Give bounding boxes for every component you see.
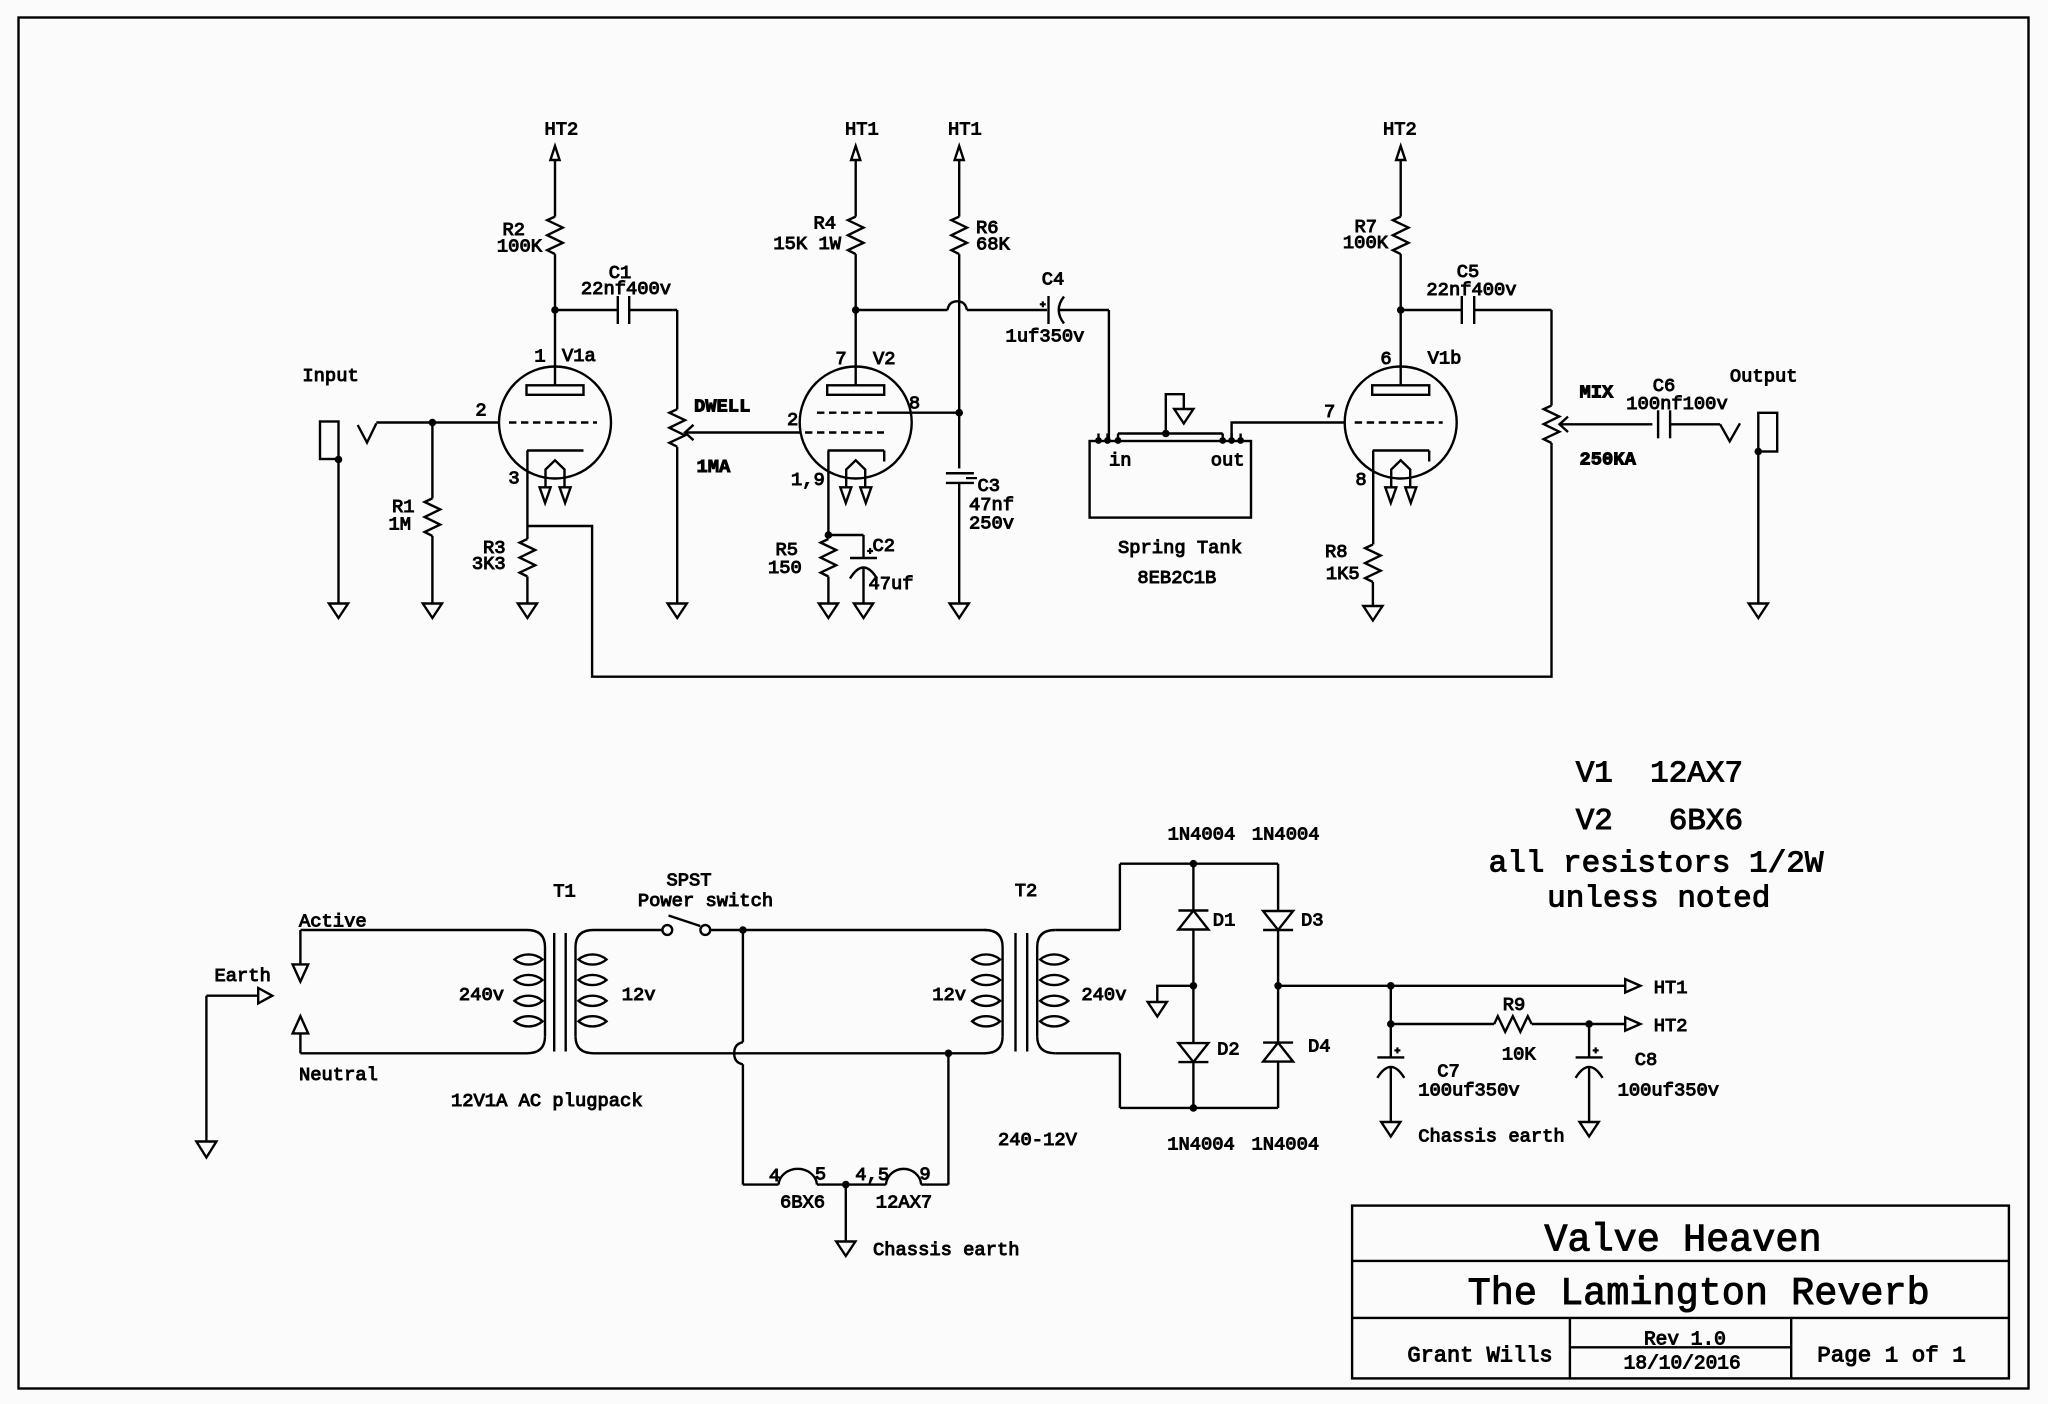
svg-text:V1b: V1b	[1428, 348, 1462, 370]
spring tank 8EB2C1B	[1090, 434, 1251, 590]
svg-text:HT1: HT1	[1654, 977, 1688, 999]
svg-text:Input: Input	[302, 365, 358, 387]
svg-text:HT2: HT2	[1654, 1015, 1688, 1037]
svg-text:5: 5	[815, 1164, 826, 1186]
svg-text:HT2: HT2	[1383, 119, 1417, 141]
ground (DWELL)	[668, 604, 687, 619]
wire HT2 line right	[1532, 1023, 1626, 1025]
ground (output jack)	[1749, 604, 1768, 619]
wire heater to T2 bottom	[921, 1053, 948, 1184]
diode D3 1N4004	[1263, 864, 1323, 986]
svg-text:Page 1 of 1: Page 1 of 1	[1817, 1343, 1966, 1369]
svg-text:12V1A AC plugpack: 12V1A AC plugpack	[451, 1090, 643, 1112]
svg-text:T2: T2	[1015, 880, 1038, 902]
output jack	[1730, 366, 1798, 604]
svg-text:68K: 68K	[976, 233, 1011, 255]
wire chassis earth drop	[845, 1185, 847, 1242]
wire R6 to C3	[958, 413, 960, 469]
svg-text:150: 150	[768, 557, 802, 579]
svg-text:HT1: HT1	[948, 119, 982, 141]
svg-text:Rev 1.0: Rev 1.0	[1644, 1329, 1726, 1351]
svg-text:3K3: 3K3	[472, 553, 506, 575]
svg-text:D3: D3	[1301, 910, 1324, 932]
power HT1 (V2)	[845, 119, 879, 217]
input jack	[302, 365, 358, 604]
wire C7 top to HT2 line	[1390, 986, 1392, 1024]
node bridge mid-left	[1190, 982, 1198, 990]
capacitor C8	[1576, 1024, 1719, 1122]
wire bridge ground branch	[1157, 986, 1193, 1002]
svg-text:22nf400v: 22nf400v	[1426, 279, 1516, 301]
resistor R3	[472, 537, 535, 604]
svg-text:1N4004: 1N4004	[1167, 1134, 1235, 1156]
wire switch to T2	[710, 929, 986, 931]
transformer T2 secondary	[1015, 880, 1127, 1053]
ground (C8)	[1580, 1122, 1599, 1137]
svg-text:in: in	[1109, 450, 1132, 472]
potentiometer MIX 250KA	[1544, 310, 1653, 471]
wire bridge top rail	[1120, 863, 1278, 865]
active terminal	[293, 911, 527, 982]
transformer T1 secondary	[553, 881, 655, 1054]
tube V1b	[1324, 310, 1461, 503]
resistor R4	[773, 213, 863, 311]
capacitor C5	[1401, 261, 1552, 324]
wire T1 sec to switch	[594, 929, 663, 931]
wire T2 sec bottom to bridge	[1055, 1053, 1120, 1108]
ground (R8)	[1363, 606, 1382, 621]
svg-text:C4: C4	[1042, 269, 1065, 291]
svg-text:250KA: 250KA	[1580, 449, 1637, 471]
svg-text:1K5: 1K5	[1326, 563, 1360, 585]
svg-text:1N4004: 1N4004	[1252, 824, 1320, 846]
svg-text:8: 8	[1355, 469, 1366, 491]
power HT2 (V1a)	[545, 119, 579, 217]
node tank shield	[1162, 430, 1170, 438]
svg-text:47uf: 47uf	[869, 573, 914, 595]
tube V2	[787, 310, 920, 503]
title block	[1352, 1206, 2009, 1379]
wire T2 sec top to bridge	[1055, 864, 1120, 930]
wire V2 grid dashes (pin 2)	[805, 431, 884, 433]
node HT2/C8	[1585, 1020, 1593, 1028]
earth terminal	[206, 965, 272, 1141]
svg-text:240-12V: 240-12V	[998, 1129, 1078, 1151]
wire heater drop (hop over neutral)	[734, 930, 778, 1185]
ground (R3)	[518, 604, 537, 619]
svg-text:Neutral: Neutral	[299, 1064, 378, 1086]
wire HT1 line	[1278, 985, 1625, 987]
svg-text:240v: 240v	[459, 984, 504, 1006]
note resistors	[1489, 847, 1824, 882]
diode D1 1N4004	[1178, 864, 1235, 986]
svg-text:R8: R8	[1325, 541, 1348, 563]
svg-text:1N4004: 1N4004	[1168, 824, 1236, 846]
wire V1b cathode drop	[1372, 451, 1374, 545]
svg-text:Earth: Earth	[215, 965, 271, 987]
svg-text:The Lamington Reverb: The Lamington Reverb	[1468, 1272, 1930, 1316]
node R2/C1/V1a plate	[551, 306, 559, 314]
note unless noted	[1547, 882, 1770, 917]
switch SPST	[638, 870, 773, 935]
svg-text:12v: 12v	[622, 984, 656, 1006]
node input / R1 junction	[429, 419, 437, 427]
svg-text:100uf350v: 100uf350v	[1418, 1080, 1519, 1102]
svg-text:SPST: SPST	[666, 870, 711, 892]
svg-text:V2: V2	[873, 348, 896, 370]
wire V2 screen dashes (pin 8)	[817, 412, 959, 414]
svg-text:all resistors 1/2W: all resistors 1/2W	[1489, 847, 1824, 882]
label 12V1A AC plugpack	[451, 1090, 643, 1112]
svg-text:6: 6	[1380, 348, 1391, 370]
svg-text:HT2: HT2	[545, 119, 579, 141]
svg-text:C8: C8	[1635, 1049, 1658, 1071]
heater winding 6BX6	[769, 1164, 826, 1214]
ground (C3)	[950, 604, 969, 619]
ground (R5)	[819, 604, 838, 619]
svg-text:2: 2	[475, 400, 486, 422]
ground (earth)	[196, 1142, 216, 1158]
svg-text:100K: 100K	[1343, 232, 1389, 254]
node bottom rail / D2	[1190, 1104, 1198, 1112]
svg-text:Spring Tank: Spring Tank	[1118, 537, 1242, 559]
terminal HT1	[1625, 977, 1687, 999]
svg-text:Chassis earth: Chassis earth	[873, 1239, 1020, 1261]
wire V1a cathode drop	[526, 451, 528, 540]
svg-text:V1 12AX7: V1 12AX7	[1576, 757, 1743, 792]
capacitor C1	[555, 262, 677, 324]
node HT1/C7	[1387, 982, 1395, 990]
label 240-12V	[998, 1129, 1078, 1151]
node V2 cathode / R5 / C2	[825, 531, 833, 539]
svg-text:7: 7	[1324, 401, 1335, 423]
wire V1b grid dashes	[1355, 421, 1443, 423]
terminal HT2	[1625, 1015, 1687, 1037]
diode D4 1N4004	[1263, 986, 1330, 1108]
label 1N4004 top	[1168, 824, 1320, 846]
resistor R9 10K	[1494, 994, 1536, 1066]
note V1 12AX7	[1576, 757, 1743, 792]
node bridge mid-right	[1274, 982, 1282, 990]
svg-text:1N4004: 1N4004	[1252, 1134, 1320, 1156]
transformer T2 core	[1016, 933, 1028, 1052]
node heater/T2 bottom	[945, 1050, 953, 1058]
svg-text:C2: C2	[873, 535, 896, 557]
wire tank shield	[1166, 394, 1184, 433]
node R7/C5/V1b plate	[1397, 306, 1405, 314]
svg-text:DWELL: DWELL	[694, 396, 750, 418]
svg-text:T1: T1	[553, 881, 576, 903]
svg-text:V2 6BX6: V2 6BX6	[1576, 804, 1743, 839]
node top rail / D1	[1190, 860, 1198, 868]
svg-text:D1: D1	[1213, 910, 1236, 932]
svg-text:2: 2	[787, 409, 798, 431]
svg-text:V1a: V1a	[562, 345, 596, 367]
neutral terminal	[293, 1016, 527, 1086]
resistor R8	[1325, 541, 1381, 606]
svg-text:1M: 1M	[388, 514, 411, 536]
svg-text:D2: D2	[1217, 1039, 1240, 1061]
tube V1a	[475, 310, 611, 503]
svg-text:100nf100v: 100nf100v	[1626, 393, 1727, 415]
svg-text:Valve Heaven: Valve Heaven	[1544, 1219, 1821, 1263]
svg-text:10K: 10K	[1502, 1044, 1537, 1066]
note V2 6BX6	[1576, 804, 1743, 839]
svg-text:3: 3	[508, 468, 519, 490]
svg-text:1,9: 1,9	[791, 469, 825, 491]
svg-text:12v: 12v	[932, 984, 966, 1006]
svg-text:250v: 250v	[969, 513, 1014, 535]
wire input tip	[358, 423, 500, 443]
capacitor C6	[1626, 375, 1727, 438]
wire V2 plate to C4 (hop over R6)	[856, 301, 1047, 310]
wire V1a cathode to MIX bottom	[527, 443, 1551, 677]
svg-text:100K: 100K	[497, 236, 543, 258]
svg-text:Output: Output	[1730, 366, 1798, 388]
svg-text:unless noted: unless noted	[1547, 882, 1770, 917]
svg-text:HT1: HT1	[845, 119, 879, 141]
svg-text:R9: R9	[1503, 994, 1526, 1016]
transformer T1 primary	[459, 930, 545, 1053]
capacitor C3	[946, 473, 1014, 603]
wire T1 sec bottom to T2 prim bottom	[594, 1052, 987, 1054]
capacitor C2	[828, 535, 913, 604]
svg-text:8: 8	[909, 393, 920, 415]
ground (C7)	[1381, 1122, 1400, 1137]
ground (bridge)	[1148, 1002, 1167, 1017]
ground (input jack)	[329, 604, 348, 619]
svg-text:D4: D4	[1308, 1036, 1331, 1058]
wire V1a grid dashes	[509, 421, 597, 423]
svg-text:Power switch: Power switch	[638, 890, 773, 912]
svg-text:out: out	[1211, 450, 1245, 472]
wire bridge bottom rail	[1120, 1107, 1278, 1109]
wire HT2 line left	[1391, 1023, 1494, 1025]
svg-text:7: 7	[835, 348, 846, 370]
svg-text:R4: R4	[813, 213, 836, 235]
svg-text:18/10/2016: 18/10/2016	[1624, 1353, 1741, 1375]
wire tank out to V1b grid	[1232, 423, 1345, 442]
svg-text:6BX6: 6BX6	[780, 1192, 825, 1214]
node R4/V2 plate	[852, 306, 860, 314]
svg-text:12AX7: 12AX7	[876, 1192, 932, 1214]
svg-text:100uf350v: 100uf350v	[1618, 1080, 1719, 1102]
svg-text:22nf400v: 22nf400v	[581, 278, 671, 300]
capacitor C4	[1006, 269, 1109, 348]
svg-text:4: 4	[769, 1165, 780, 1187]
svg-text:1uf350v: 1uf350v	[1006, 326, 1085, 348]
svg-text:Chassis earth: Chassis earth	[1418, 1126, 1565, 1148]
wire between heater windings	[817, 1183, 886, 1185]
svg-text:9: 9	[919, 1164, 930, 1186]
label 1N4004 bottom	[1167, 1134, 1319, 1156]
label chassis earth 2	[1418, 1126, 1565, 1148]
svg-text:Grant Wills: Grant Wills	[1407, 1344, 1552, 1369]
svg-text:1: 1	[534, 346, 545, 368]
svg-text:8EB2C1B: 8EB2C1B	[1137, 567, 1216, 589]
resistor R7	[1343, 216, 1409, 310]
resistor R1	[388, 423, 440, 604]
svg-text:240v: 240v	[1081, 984, 1126, 1006]
svg-text:1MA: 1MA	[697, 456, 732, 478]
node chassis earth tap	[842, 1181, 850, 1189]
wire V2 cathode drop	[827, 451, 829, 536]
wire C4 to tank in	[1108, 310, 1110, 441]
svg-text:MIX: MIX	[1580, 382, 1615, 404]
transformer T2 primary	[932, 930, 1002, 1053]
power HT1 (R6)	[948, 119, 982, 217]
ground (chassis earth)	[836, 1239, 1019, 1261]
node HT2/C7	[1387, 1020, 1395, 1028]
potentiometer DWELL 1MA	[669, 310, 800, 604]
svg-text:4,5: 4,5	[855, 1164, 889, 1186]
resistor R6	[951, 217, 1010, 413]
transformer T1 core	[554, 933, 566, 1052]
power HT2 (V1b)	[1383, 119, 1417, 217]
ground (R1)	[423, 604, 442, 619]
node V2 pin8 / R6 / C3	[955, 409, 963, 417]
node switch junction	[739, 926, 747, 934]
resistor R2	[497, 217, 563, 310]
svg-text:15K 1W: 15K 1W	[773, 233, 841, 255]
heater winding 12AX7	[855, 1164, 932, 1214]
diode D2 1N4004	[1178, 986, 1239, 1108]
ground (C2)	[854, 604, 873, 619]
resistor R5	[768, 539, 836, 604]
wire output tip	[1720, 423, 1740, 441]
capacitor C7	[1377, 1024, 1519, 1122]
ground (tank shield)	[1174, 409, 1193, 424]
